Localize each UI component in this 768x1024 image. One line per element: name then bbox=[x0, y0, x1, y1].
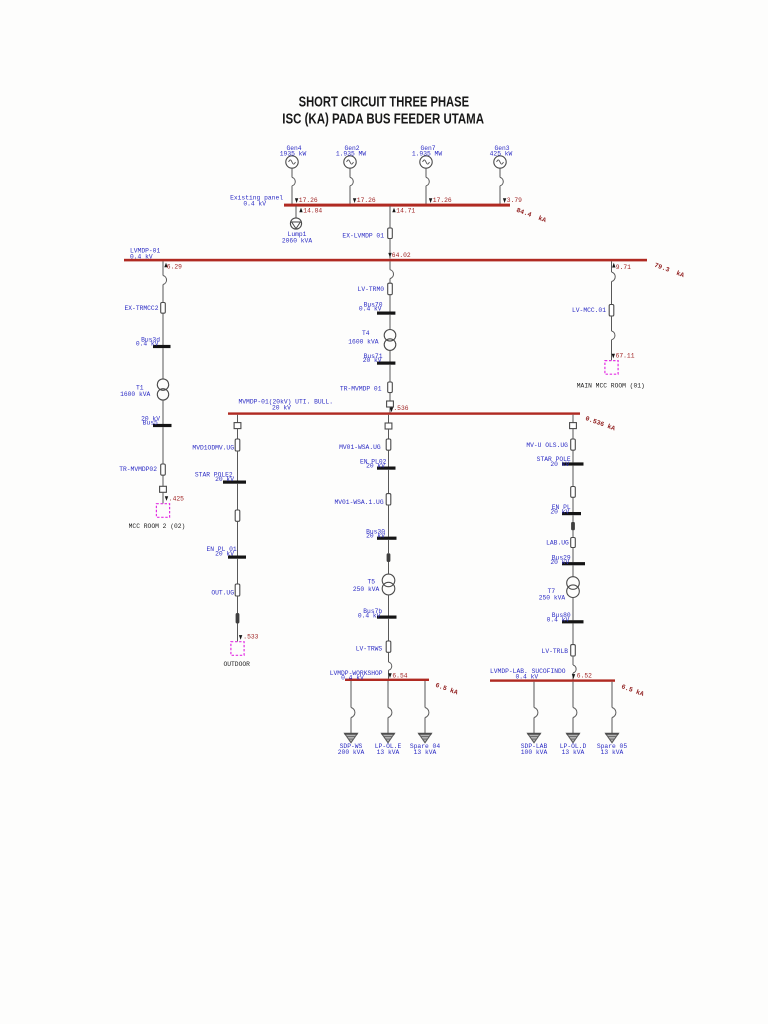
svg-text:Bus5: Bus5 bbox=[143, 419, 158, 426]
wire MR11 bbox=[572, 623, 574, 644]
bus Bus7b 0.4 kV bbox=[358, 608, 397, 619]
wire MC6 bbox=[388, 540, 390, 554]
title line 1 bbox=[299, 95, 470, 111]
bus STAR POLE 20 kV bbox=[537, 456, 584, 468]
wire ML4 bbox=[237, 484, 239, 510]
switch MC bbox=[385, 423, 392, 429]
breaker CB Spare 04 bbox=[425, 708, 429, 718]
svg-text:MV01-WSA.UG: MV01-WSA.UG bbox=[339, 444, 381, 451]
svg-text:1935 kW: 1935 kW bbox=[280, 151, 307, 158]
arrow/value 17.26 at Gen2 bbox=[353, 197, 376, 204]
svg-text:3.79: 3.79 bbox=[507, 197, 522, 204]
svg-text:200 kVA: 200 kVA bbox=[338, 749, 365, 756]
wire MR5 bbox=[572, 497, 574, 512]
wire MC10 bbox=[388, 652, 390, 662]
wire L6 bbox=[162, 427, 164, 464]
wire bus5 to SDP-LAB bbox=[533, 682, 535, 734]
bus Bus70 0.4 kV bbox=[359, 301, 395, 314]
breaker CB right lower bbox=[612, 331, 615, 340]
svg-text:0.4 kV: 0.4 kV bbox=[130, 254, 153, 261]
svg-text:T5: T5 bbox=[367, 578, 375, 585]
generator Gen4 bbox=[280, 145, 307, 168]
switch left bbox=[160, 486, 167, 492]
transformer T5 250 kVA bbox=[353, 574, 395, 595]
arrow/value .536 into bus3 bbox=[390, 405, 409, 412]
arrow/value 17.26 at Gen4 bbox=[295, 197, 318, 204]
wire MC8 bbox=[388, 595, 390, 616]
load point OUTDOOR bbox=[223, 642, 250, 668]
bus Bus30 20 kV bbox=[366, 529, 396, 540]
svg-text:14.84: 14.84 bbox=[303, 207, 322, 214]
load SDP-WS 200 kVA bbox=[338, 733, 365, 756]
wire C4 bbox=[389, 350, 391, 361]
cable MV01-WSA.1.UG bbox=[334, 494, 390, 507]
svg-text:ISC (KA) PADA BUS FEEDER UTAMA: ISC (KA) PADA BUS FEEDER UTAMA bbox=[282, 112, 484, 128]
wire bus5 to LP-OL.D bbox=[572, 682, 574, 734]
arrow/value 14.71 bbox=[392, 207, 415, 214]
arrow/value 9.71 bbox=[612, 263, 631, 271]
cable EX-TRMCC2 bbox=[124, 303, 165, 314]
wire C2 bbox=[389, 295, 391, 312]
load Spare 05 13 kVA bbox=[597, 733, 627, 756]
breaker CB workshop bbox=[389, 662, 392, 670]
switch ML bbox=[234, 423, 241, 429]
bus EN PL 01 20 kV bbox=[206, 546, 246, 559]
cable TR-MVMDP 01 bbox=[340, 382, 392, 393]
wire MR8 bbox=[572, 548, 574, 563]
arrow/value 64.02 into bus2 bbox=[388, 252, 411, 259]
svg-text:13 kVA: 13 kVA bbox=[562, 749, 585, 756]
cable MV-U OLS.UG bbox=[526, 439, 575, 450]
load SDP-LAB 100 kVA bbox=[521, 733, 548, 756]
bus Bus80 0.4 kV bbox=[547, 612, 584, 624]
svg-text:2060 kVA: 2060 kVA bbox=[282, 238, 312, 245]
transformer T4 1600 kVA bbox=[348, 330, 396, 351]
wire MR12 bbox=[572, 656, 574, 665]
svg-text:20 kV: 20 kV bbox=[366, 462, 385, 469]
wire C7 bbox=[389, 407, 391, 413]
breaker CB-Gen3 bbox=[500, 177, 503, 185]
wire ML5 bbox=[237, 521, 239, 555]
wire MC11 bbox=[388, 670, 390, 679]
wire C1 bbox=[389, 261, 391, 283]
svg-text:20 kV: 20 kV bbox=[215, 551, 234, 558]
svg-text:17.26: 17.26 bbox=[433, 197, 452, 204]
wire Gen3 to bus1 bbox=[499, 168, 501, 205]
bus3 MVMDP-01 20 kV bbox=[228, 398, 580, 415]
svg-text:6.29: 6.29 bbox=[167, 264, 182, 271]
bus4 fault label 6.5 kA bbox=[434, 682, 458, 697]
wire ML8 bbox=[237, 624, 239, 642]
bus4 LVMDP-WORKSHOP 0.4 kV bbox=[330, 670, 429, 682]
wire bus3 down ML1 bbox=[237, 415, 239, 423]
svg-text:SHORT CIRCUIT THREE PHASE: SHORT CIRCUIT THREE PHASE bbox=[299, 95, 470, 111]
svg-text:6.54: 6.54 bbox=[392, 672, 407, 679]
wire Gen4 to bus1 bbox=[291, 168, 293, 205]
generator Gen7 bbox=[412, 145, 442, 168]
transformer T1 1600 kVA bbox=[120, 379, 169, 400]
arrow/value .425 bbox=[165, 495, 184, 502]
wire Gen7 to bus1 bbox=[425, 168, 427, 205]
svg-text:LV-TRLB: LV-TRLB bbox=[542, 648, 569, 655]
svg-text:13 kVA: 13 kVA bbox=[414, 749, 437, 756]
wire MC9 bbox=[388, 619, 390, 641]
wire L2 bbox=[162, 285, 164, 303]
breaker CB-Gen4 bbox=[292, 177, 295, 185]
wire MR3 bbox=[572, 450, 574, 462]
svg-text:LV-TRWS: LV-TRWS bbox=[356, 645, 383, 652]
svg-text:1.935 MW: 1.935 MW bbox=[412, 151, 442, 158]
generator Gen3 bbox=[490, 145, 513, 168]
wire ML7 bbox=[237, 596, 239, 613]
svg-text:0.4 kV: 0.4 kV bbox=[243, 201, 266, 208]
cable LV-MCC.01 bbox=[572, 305, 614, 317]
arrow/value 14.84 at Lump1 bbox=[299, 207, 322, 214]
wire MR13 bbox=[572, 673, 574, 680]
wire MC3 bbox=[388, 450, 390, 466]
breaker CB Spare 05 bbox=[612, 708, 616, 718]
wire L3 bbox=[162, 313, 164, 345]
wire L7 bbox=[162, 475, 164, 486]
wire bus5 to Spare 05 bbox=[611, 682, 613, 734]
svg-text:20 kV: 20 kV bbox=[215, 476, 234, 483]
bus1 Existing panel 0.4 kV bbox=[230, 195, 510, 208]
title line 2 bbox=[282, 112, 484, 128]
svg-text:13 kVA: 13 kVA bbox=[601, 749, 624, 756]
lumped load Lump1 bbox=[282, 218, 312, 245]
svg-text:0.4 kV: 0.4 kV bbox=[547, 616, 570, 623]
svg-text:9.71: 9.71 bbox=[616, 264, 631, 271]
arrow/value .533 bbox=[239, 633, 259, 640]
bus2 LVMDP-01 0.4 kV bbox=[124, 247, 647, 261]
wire EX-LVMDP cable to bus2 bbox=[389, 239, 391, 259]
breaker CB SDP-WS bbox=[351, 708, 355, 718]
arrow/value 6.29 bbox=[164, 263, 182, 271]
cable EX-LVMDP 01 bbox=[342, 228, 392, 239]
svg-text:LV-TRM0: LV-TRM0 bbox=[358, 286, 385, 293]
cable OUT.UG bbox=[211, 584, 239, 597]
arrow/value 6.52 into bus5 bbox=[572, 672, 592, 679]
bus2 fault label 79.3 kA bbox=[653, 262, 685, 279]
svg-text:MV01-WSA.1.UG: MV01-WSA.1.UG bbox=[334, 499, 383, 506]
svg-text:20 kV: 20 kV bbox=[363, 357, 382, 364]
cable MVD1ODMV.UG bbox=[192, 439, 239, 452]
load LP-OL.E 13 kVA bbox=[375, 733, 402, 756]
wire MR6 bbox=[572, 515, 574, 522]
svg-text:250 kVA: 250 kVA bbox=[353, 586, 380, 593]
wire R2 bbox=[611, 282, 613, 305]
svg-text:6.52: 6.52 bbox=[577, 672, 592, 679]
svg-text:LAB.UG: LAB.UG bbox=[546, 540, 569, 547]
svg-text:EX-LVMDP 01: EX-LVMDP 01 bbox=[342, 232, 384, 239]
svg-text:.533: .533 bbox=[243, 633, 258, 640]
arrow/value 17.26 at Gen7 bbox=[429, 197, 452, 204]
load point MCC ROOM 2 bbox=[129, 504, 186, 530]
svg-text:1.935 MW: 1.935 MW bbox=[336, 151, 366, 158]
wire Gen2 to bus1 bbox=[349, 168, 351, 205]
switch center-upper bbox=[387, 401, 394, 407]
wire MC2 bbox=[388, 429, 390, 439]
bus STAR POLE2 20 kV bbox=[195, 471, 246, 483]
svg-text:0.4 kV: 0.4 kV bbox=[359, 306, 382, 313]
bus1 fault label 84.4 kA bbox=[515, 207, 547, 224]
svg-text:LV-MCC.01: LV-MCC.01 bbox=[572, 307, 606, 314]
svg-text:OUT.UG: OUT.UG bbox=[211, 590, 234, 597]
wire R3 bbox=[611, 316, 613, 331]
wire bus1 to Lump1 bbox=[295, 206, 297, 218]
breaker CB-Gen2 bbox=[350, 177, 353, 185]
wire MR10 bbox=[572, 598, 574, 621]
load LP-OL.D 13 kVA bbox=[560, 733, 587, 756]
wire bus2 down R1 bbox=[611, 261, 613, 272]
fuse ML bbox=[236, 613, 240, 624]
bus Bus71 20 kV bbox=[363, 353, 396, 365]
svg-text:20 kV: 20 kV bbox=[550, 559, 569, 566]
wire C6 bbox=[389, 393, 391, 401]
svg-text:1600 kVA: 1600 kVA bbox=[348, 338, 378, 345]
breaker CB LP-OL.E bbox=[388, 708, 392, 718]
cable MR mid bbox=[571, 487, 576, 498]
svg-text:250 kVA: 250 kVA bbox=[539, 594, 566, 601]
bus Bus5 20 kV bbox=[141, 415, 171, 427]
load Spare 04 13 kVA bbox=[410, 733, 440, 756]
wire L8 bbox=[162, 492, 164, 503]
svg-text:17.26: 17.26 bbox=[357, 197, 376, 204]
arrow/value 3.79 at Gen3 bbox=[503, 197, 522, 204]
fuse MC bbox=[387, 553, 391, 562]
breaker CB-Gen7 bbox=[426, 177, 429, 185]
breaker CB lab bbox=[573, 665, 576, 673]
svg-text:67.11: 67.11 bbox=[616, 353, 635, 360]
transformer T7 250 kVA bbox=[539, 577, 580, 602]
wire ML2 bbox=[237, 429, 239, 439]
svg-text:17.26: 17.26 bbox=[299, 197, 318, 204]
wire bus4 to LP-OL.E bbox=[387, 681, 389, 733]
wire bus2 down L1 bbox=[162, 261, 164, 275]
svg-text:EX-TRMCC2: EX-TRMCC2 bbox=[124, 305, 158, 312]
wire bus3 down MC1 bbox=[388, 415, 390, 423]
wire C5 bbox=[389, 365, 391, 382]
svg-text:13 kVA: 13 kVA bbox=[377, 749, 400, 756]
wire ML6 bbox=[237, 559, 239, 584]
bus EN PL02 20 kV bbox=[360, 458, 396, 469]
wire bus1 to EX-LVMDP cable bbox=[389, 206, 391, 228]
cable LV-TRM0 bbox=[358, 283, 393, 295]
svg-text:0.4 kV: 0.4 kV bbox=[358, 613, 381, 620]
svg-text:MCC ROOM 2 (02): MCC ROOM 2 (02) bbox=[129, 523, 186, 530]
svg-text:100 kVA: 100 kVA bbox=[521, 749, 548, 756]
svg-text:MVD1ODMV.UG: MVD1ODMV.UG bbox=[192, 445, 234, 452]
breaker CB right upper bbox=[612, 272, 616, 282]
svg-text:0.4 kV: 0.4 kV bbox=[341, 675, 364, 682]
breaker CB left bbox=[163, 276, 167, 285]
fuse MR bbox=[571, 522, 575, 531]
wire bus4 to SDP-WS bbox=[350, 681, 352, 733]
svg-text:1600 kVA: 1600 kVA bbox=[120, 391, 150, 398]
cable LAB.UG bbox=[546, 538, 575, 548]
bus5 LVMDP-LAB. SUCOFINDO 0.4 kV bbox=[490, 668, 615, 682]
svg-text:0.4 kV: 0.4 kV bbox=[136, 340, 159, 347]
wire bus3 down MR1 bbox=[572, 415, 574, 423]
cable LV-TRWS bbox=[356, 641, 391, 652]
svg-text:20 kV: 20 kV bbox=[550, 461, 569, 468]
wire MR4 bbox=[572, 466, 574, 487]
cable ML mid bbox=[235, 510, 240, 521]
wire MR7 bbox=[572, 530, 574, 537]
svg-text:OUTDOOR: OUTDOOR bbox=[223, 661, 250, 668]
svg-text:20 kV: 20 kV bbox=[272, 405, 291, 412]
wire MC4 bbox=[388, 470, 390, 494]
svg-text:T4: T4 bbox=[362, 330, 370, 337]
wire MC7 bbox=[388, 562, 390, 574]
wire MR9 bbox=[572, 565, 574, 576]
wire MC5 bbox=[388, 505, 390, 537]
breaker CB center bbox=[390, 270, 393, 279]
generator Gen2 bbox=[336, 145, 366, 168]
load point MAIN MCC ROOM bbox=[577, 361, 645, 390]
wire ML3 bbox=[237, 451, 239, 481]
cable TR-MVMDP02 bbox=[119, 464, 165, 475]
svg-text:.536: .536 bbox=[393, 405, 408, 412]
wire L5 bbox=[162, 400, 164, 424]
bus5 fault label 6.5 kA bbox=[620, 683, 644, 698]
breaker CB LP-OL.D bbox=[573, 708, 577, 718]
svg-text:20 kV: 20 kV bbox=[366, 533, 385, 540]
arrow/value 67.11 bbox=[612, 353, 635, 360]
svg-text:MAIN MCC ROOM (01): MAIN MCC ROOM (01) bbox=[577, 383, 645, 390]
bus EN PL 20 kV bbox=[550, 504, 581, 515]
svg-text:TR-MVMDP02: TR-MVMDP02 bbox=[119, 466, 157, 473]
svg-text:64.02: 64.02 bbox=[392, 252, 411, 259]
svg-text:TR-MVMDP 01: TR-MVMDP 01 bbox=[340, 385, 382, 392]
wire L4 bbox=[162, 348, 164, 379]
svg-text:20 kV: 20 kV bbox=[550, 509, 569, 516]
wire bus4 to Spare 04 bbox=[424, 681, 426, 733]
svg-text:.425: .425 bbox=[169, 495, 184, 502]
bus Bus29 20 kV bbox=[550, 554, 585, 565]
svg-text:425 kW: 425 kW bbox=[490, 151, 513, 158]
cable MV01-WSA.UG bbox=[339, 439, 391, 451]
switch MR bbox=[570, 423, 577, 429]
bus3 fault label 0.536 kA bbox=[584, 415, 616, 432]
breaker CB SDP-LAB bbox=[534, 708, 538, 718]
wire R4 bbox=[611, 340, 613, 361]
bus Bus3d 0.4 kV bbox=[136, 336, 171, 348]
svg-text:0.4 kV: 0.4 kV bbox=[516, 673, 539, 680]
arrow/value 6.54 into bus4 bbox=[388, 672, 407, 679]
wire C3 bbox=[389, 315, 391, 330]
wire MR2 bbox=[572, 429, 574, 439]
cable LV-TRLB bbox=[542, 645, 576, 656]
svg-text:14.71: 14.71 bbox=[396, 207, 415, 214]
svg-text:MV-U OLS.UG: MV-U OLS.UG bbox=[526, 442, 568, 449]
